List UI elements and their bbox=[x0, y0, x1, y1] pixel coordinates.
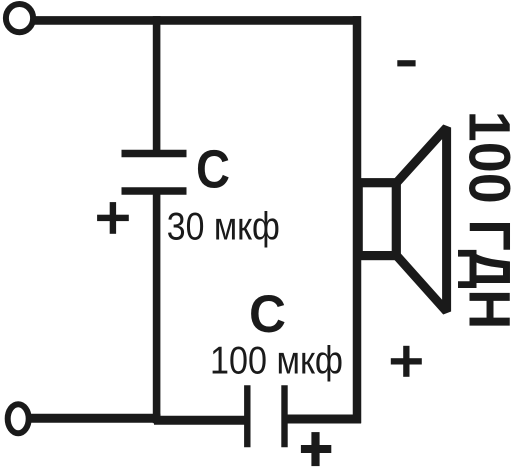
wire branch lower vertical bbox=[153, 191, 161, 423]
terminal input bottom-left bbox=[8, 404, 29, 433]
svg-text:100 мкф: 100 мкф bbox=[210, 340, 343, 383]
capacitor C1 top plate bbox=[122, 150, 187, 157]
capacitor C2 left plate bbox=[244, 385, 250, 447]
speaker BA1 cone bbox=[396, 128, 446, 312]
wire bottom-right horizontal bbox=[285, 415, 362, 424]
wire right vertical bbox=[353, 16, 362, 423]
terminal input top-left bbox=[6, 4, 33, 32]
svg-text:100 ГДН: 100 ГДН bbox=[457, 111, 512, 329]
svg-text:30 мкф: 30 мкф bbox=[167, 205, 280, 248]
wire bottom-left horizontal (terminal to junction) bbox=[31, 414, 161, 423]
wire top horizontal bbox=[33, 16, 361, 25]
wire bottom horizontal (junction to C2 left plate) bbox=[154, 416, 247, 425]
capacitor C2 right plate bbox=[281, 385, 287, 447]
wire branch upper vertical bbox=[153, 16, 161, 153]
svg-text:C: C bbox=[196, 140, 230, 200]
plus polarity mark near speaker bbox=[391, 346, 422, 377]
speaker BA1 driver rectangle bbox=[358, 183, 396, 256]
plus polarity mark of C2 bbox=[301, 432, 331, 466]
minus polarity mark near speaker bbox=[397, 60, 415, 66]
plus polarity mark of C1 bbox=[97, 202, 129, 234]
svg-text:C: C bbox=[249, 285, 286, 344]
capacitor C1 bottom plate bbox=[122, 187, 187, 195]
